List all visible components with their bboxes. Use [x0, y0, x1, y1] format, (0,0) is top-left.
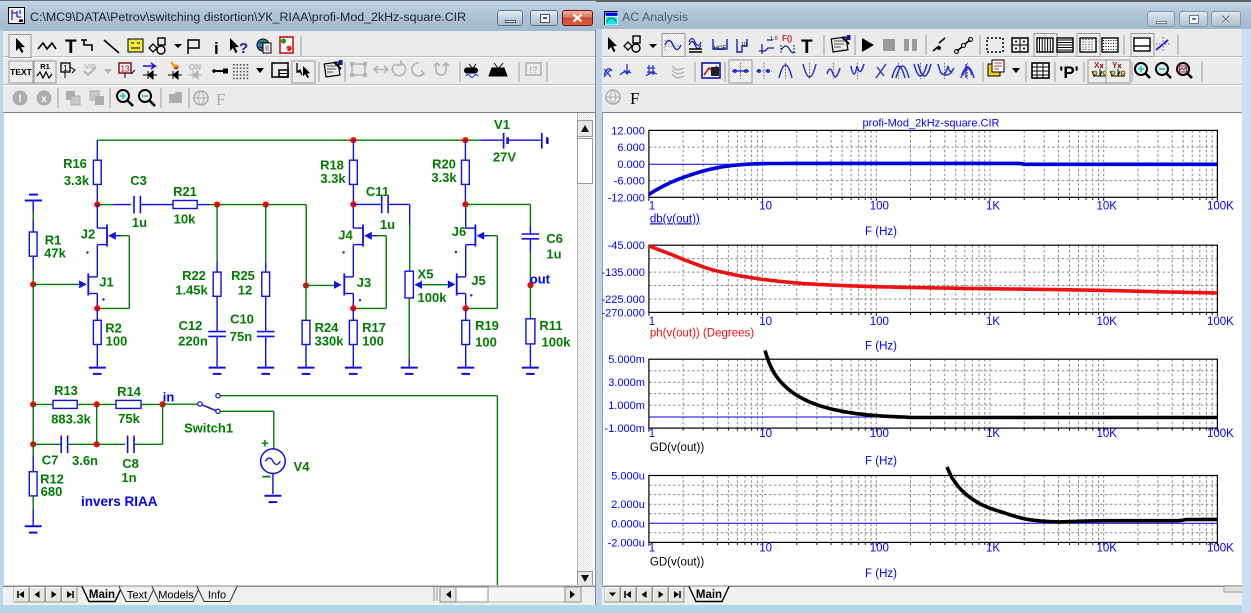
- svg-text:1K: 1K: [986, 201, 1000, 213]
- svg-text:220n: 220n: [178, 334, 208, 349]
- svg-text:+: +: [261, 435, 269, 450]
- svg-text:'P': 'P': [1059, 63, 1078, 82]
- svg-text:J4: J4: [338, 228, 353, 243]
- svg-text:Y: Y: [1112, 61, 1118, 70]
- svg-text:F(): F(): [782, 34, 793, 43]
- svg-text:Main: Main: [696, 589, 722, 601]
- svg-text:27V: 27V: [493, 150, 516, 165]
- svg-text:10K: 10K: [1096, 316, 1117, 328]
- svg-text:-1.000m: -1.000m: [605, 423, 645, 435]
- svg-text:10: 10: [759, 428, 772, 440]
- svg-text:R14: R14: [117, 384, 142, 399]
- svg-text:3.3k: 3.3k: [64, 173, 90, 188]
- svg-text:ph(v(out)) (Degrees): ph(v(out)) (Degrees): [650, 328, 754, 340]
- svg-text:T: T: [801, 37, 813, 58]
- svg-text:1: 1: [63, 64, 68, 73]
- svg-text:100K: 100K: [1207, 428, 1234, 440]
- svg-text:10: 10: [759, 316, 772, 328]
- svg-text:100k: 100k: [542, 335, 572, 350]
- svg-text:V1: V1: [494, 117, 510, 132]
- svg-text:J1: J1: [99, 275, 113, 290]
- svg-text:C10: C10: [230, 312, 254, 327]
- svg-text:10: 10: [759, 543, 772, 555]
- svg-text:10k: 10k: [174, 212, 196, 227]
- svg-text:10: 10: [759, 201, 772, 213]
- svg-text:GD(v(out)): GD(v(out)): [650, 442, 704, 454]
- svg-text:db(v(out)): db(v(out)): [650, 213, 700, 225]
- svg-text:100K: 100K: [1207, 316, 1234, 328]
- svg-text:100: 100: [106, 334, 128, 349]
- svg-text:C11: C11: [366, 184, 389, 199]
- svg-text:680: 680: [41, 484, 63, 499]
- svg-text:1.0: 1.0: [770, 36, 778, 42]
- svg-text:X: X: [1094, 61, 1100, 70]
- svg-text:0.000u: 0.000u: [611, 518, 645, 530]
- svg-text:330k: 330k: [315, 334, 345, 349]
- svg-text:out: out: [530, 271, 551, 286]
- svg-text:C12: C12: [179, 318, 203, 333]
- svg-text:6.000: 6.000: [617, 142, 645, 154]
- svg-text:12.000: 12.000: [611, 125, 645, 137]
- svg-text:ON: ON: [189, 63, 201, 72]
- svg-text:profi-Mod_2kHz-square.CIR: profi-Mod_2kHz-square.CIR: [863, 118, 1000, 130]
- svg-text:3.3k: 3.3k: [320, 171, 346, 186]
- svg-text:2.000u: 2.000u: [611, 499, 645, 511]
- svg-text:47k: 47k: [44, 246, 66, 261]
- svg-text:X5: X5: [418, 267, 434, 282]
- svg-text:100: 100: [870, 316, 889, 328]
- svg-text:R16: R16: [63, 156, 87, 171]
- svg-text:12: 12: [238, 283, 252, 298]
- svg-text:-45.000: -45.000: [608, 240, 645, 252]
- svg-text:invers RIAA: invers RIAA: [81, 494, 158, 509]
- svg-text:J2: J2: [81, 227, 95, 242]
- svg-text:GD(v(out)): GD(v(out)): [650, 557, 704, 569]
- svg-text:C8: C8: [122, 456, 139, 471]
- svg-text:J6: J6: [452, 224, 466, 239]
- svg-text:5.000m: 5.000m: [608, 354, 645, 366]
- svg-text:5.000u: 5.000u: [611, 471, 645, 483]
- svg-text:V4: V4: [294, 459, 311, 474]
- svg-text:TEXT: TEXT: [10, 67, 33, 77]
- svg-text:1u: 1u: [546, 247, 561, 262]
- svg-text:0.000: 0.000: [617, 159, 645, 171]
- svg-text:1.45k: 1.45k: [175, 283, 208, 298]
- svg-text:R21: R21: [173, 184, 197, 199]
- svg-text:75n: 75n: [230, 329, 252, 344]
- svg-text:1n: 1n: [121, 470, 136, 485]
- svg-text:100K: 100K: [1207, 201, 1234, 213]
- svg-text:Text: Text: [127, 590, 147, 602]
- svg-text:100K: 100K: [1207, 543, 1234, 555]
- svg-text:Info: Info: [208, 590, 226, 602]
- svg-text:1.000m: 1.000m: [608, 400, 645, 412]
- svg-text:F: F: [216, 90, 225, 109]
- svg-text:Models: Models: [158, 590, 194, 602]
- svg-text:HOF: HOF: [714, 46, 727, 52]
- svg-text:R22: R22: [182, 268, 206, 283]
- svg-text:F (Hz): F (Hz): [865, 226, 897, 238]
- svg-text:-270.000: -270.000: [601, 307, 644, 319]
- svg-text:J3: J3: [357, 275, 371, 290]
- svg-text:1: 1: [649, 316, 655, 328]
- svg-text:1K: 1K: [986, 316, 1000, 328]
- svg-text:C7: C7: [42, 452, 59, 467]
- svg-text:1: 1: [649, 543, 655, 555]
- svg-text:100: 100: [870, 428, 889, 440]
- svg-text:in: in: [163, 390, 175, 405]
- svg-text:Switch1: Switch1: [184, 420, 233, 435]
- svg-text:R13: R13: [54, 383, 78, 398]
- svg-text:3.000m: 3.000m: [608, 377, 645, 389]
- svg-text:!?: !?: [529, 65, 538, 75]
- svg-text:x: x: [285, 47, 288, 53]
- svg-text:R19: R19: [475, 318, 499, 333]
- svg-text:10K: 10K: [1096, 428, 1117, 440]
- svg-text:100k: 100k: [418, 290, 448, 305]
- svg-text:-135.000: -135.000: [601, 267, 644, 279]
- svg-text:-6.000: -6.000: [614, 176, 645, 188]
- svg-text:13: 13: [121, 65, 130, 74]
- svg-text:T: T: [65, 37, 77, 58]
- svg-text:C3: C3: [130, 173, 147, 188]
- svg-text:i: i: [214, 39, 219, 58]
- svg-text:100: 100: [870, 543, 889, 555]
- svg-text:R1: R1: [40, 62, 50, 71]
- svg-text:75k: 75k: [118, 411, 140, 426]
- svg-text:1u: 1u: [380, 217, 395, 232]
- svg-text:10K: 10K: [1096, 201, 1117, 213]
- svg-text:3.6n: 3.6n: [72, 453, 98, 468]
- svg-text:F: F: [630, 89, 639, 108]
- svg-text:C6: C6: [546, 231, 563, 246]
- svg-text:Main: Main: [89, 589, 115, 601]
- svg-text:F (Hz): F (Hz): [865, 455, 897, 467]
- svg-text:x: x: [41, 94, 47, 105]
- svg-text:-2.000u: -2.000u: [608, 537, 645, 549]
- svg-text:?: ?: [239, 40, 248, 57]
- svg-text:1: 1: [649, 201, 655, 213]
- svg-text:-12.000: -12.000: [608, 192, 645, 204]
- svg-text:100: 100: [362, 334, 384, 349]
- svg-text:F (Hz): F (Hz): [865, 340, 897, 352]
- svg-text:J5: J5: [471, 273, 485, 288]
- svg-text:R25: R25: [231, 268, 255, 283]
- svg-text:1: 1: [649, 428, 655, 440]
- svg-text:-225.000: -225.000: [601, 294, 644, 306]
- svg-text:10K: 10K: [1096, 543, 1117, 555]
- svg-text:1u: 1u: [132, 215, 147, 230]
- svg-text:!: !: [18, 93, 22, 105]
- svg-text:3.3k: 3.3k: [431, 170, 457, 185]
- svg-text:F (Hz): F (Hz): [865, 568, 897, 580]
- svg-text:R11: R11: [539, 318, 562, 333]
- svg-text:10: 10: [741, 42, 747, 48]
- svg-text:1K: 1K: [986, 428, 1000, 440]
- svg-text:1K: 1K: [986, 543, 1000, 555]
- svg-text:883.3k: 883.3k: [51, 412, 92, 427]
- svg-text:100: 100: [475, 335, 497, 350]
- svg-text:100: 100: [870, 201, 889, 213]
